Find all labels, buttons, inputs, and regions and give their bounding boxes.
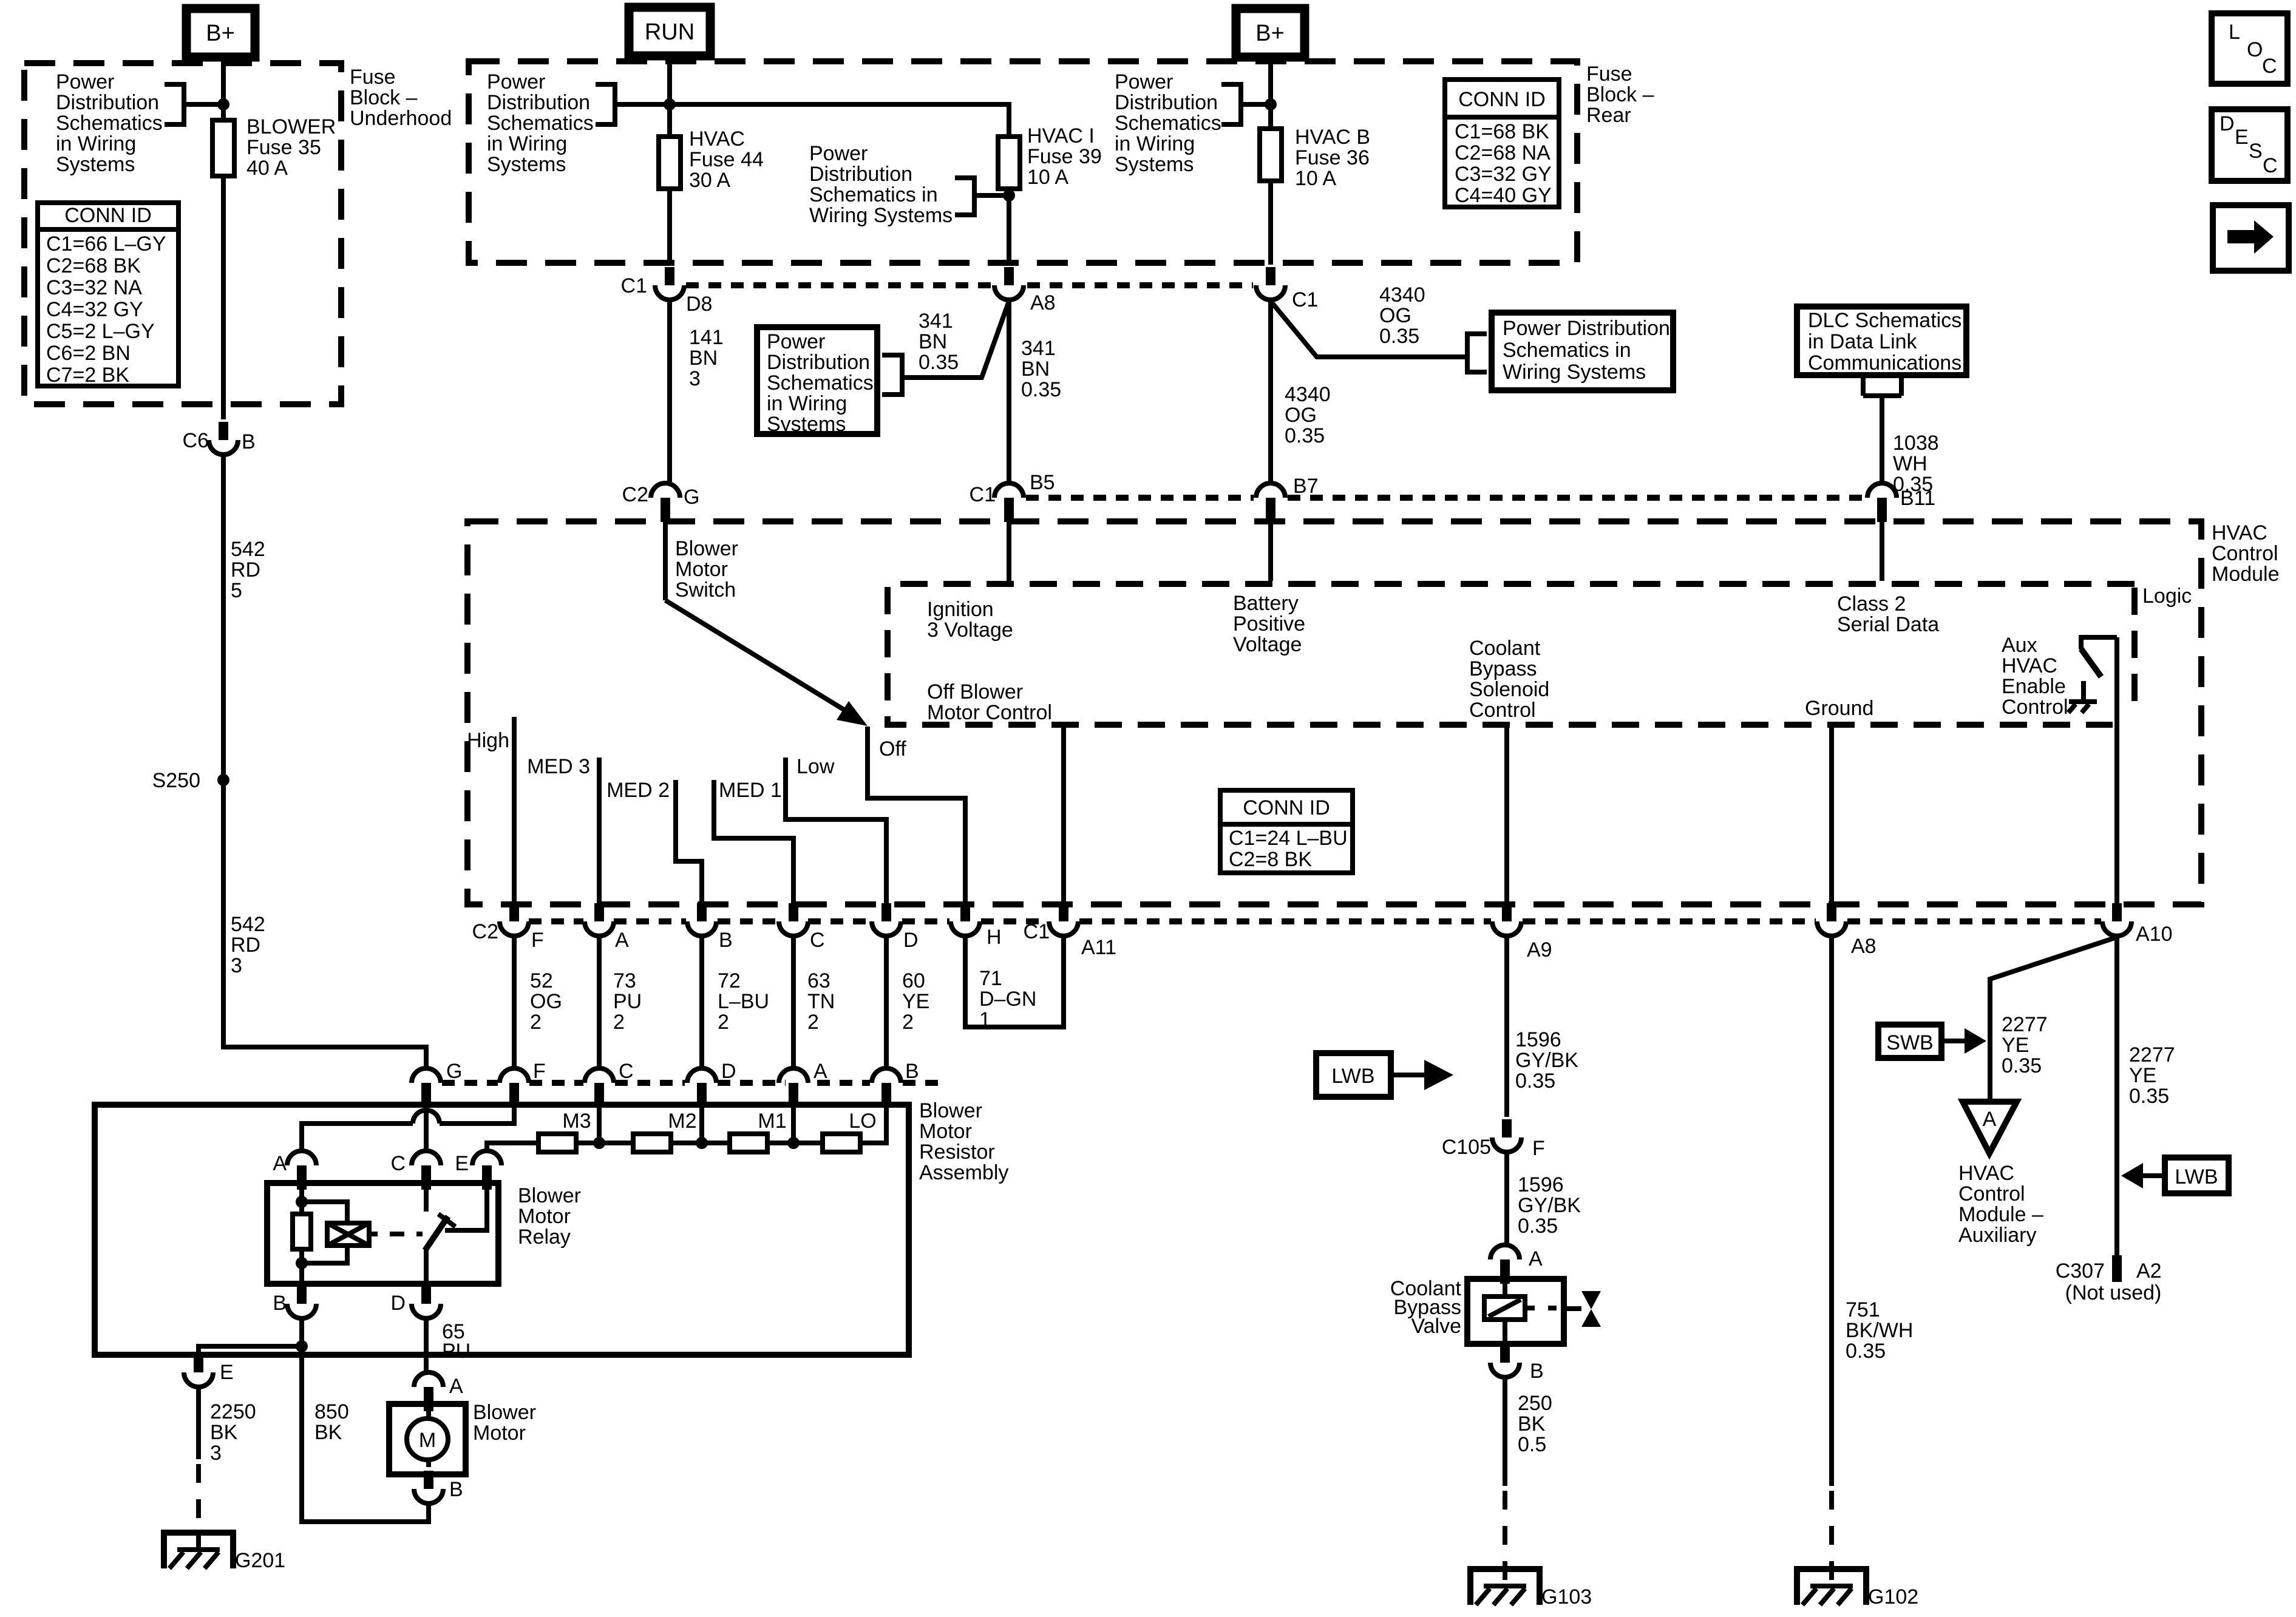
blower motor pin B <box>414 1471 463 1503</box>
svg-text:2: 2 <box>613 1011 625 1034</box>
note Power Distribution Schematics in Wiring Systems (rear feed) <box>1115 70 1271 176</box>
svg-text:341: 341 <box>1021 337 1056 360</box>
relay pin E <box>455 1151 501 1190</box>
switch position MED 2 <box>606 779 702 906</box>
wire aux hvac enable to A10 <box>2114 637 2119 906</box>
svg-text:2: 2 <box>530 1011 542 1034</box>
svg-text:Block –: Block – <box>350 86 418 109</box>
relay coil branch: wire A down <box>299 1183 304 1214</box>
switch position MED 1 <box>714 779 793 906</box>
svg-text:3 Voltage: 3 Voltage <box>927 619 1013 642</box>
wire 1038 WH 0.35 <box>1880 396 1884 483</box>
wire 63 TN 2 <box>793 936 835 1068</box>
note Power Distribution Schematics in Wiring Systems (fuse 39) <box>809 142 1009 227</box>
wire pin F to relay pin A (high speed feed) <box>440 1107 514 1124</box>
svg-text:C3=32 NA: C3=32 NA <box>46 276 142 299</box>
svg-text:Control: Control <box>2002 696 2068 719</box>
svg-text:Class 2: Class 2 <box>1837 592 1906 615</box>
connector pin A (resistor assembly) <box>779 1060 827 1107</box>
svg-text:Distribution: Distribution <box>56 91 159 114</box>
svg-text:HVAC: HVAC <box>2002 654 2057 677</box>
svg-text:S: S <box>2249 140 2263 163</box>
svg-text:0.35: 0.35 <box>1518 1215 1558 1238</box>
svg-text:1596: 1596 <box>1518 1173 1564 1196</box>
svg-text:2277: 2277 <box>2129 1043 2175 1066</box>
wire M1 to LO <box>767 1141 823 1145</box>
wire 542 RD 3 to blower motor resistor assembly pin G <box>223 780 426 1070</box>
svg-text:C4=40 GY: C4=40 GY <box>1455 184 1552 207</box>
svg-text:D–GN: D–GN <box>979 988 1036 1011</box>
svg-text:0.35: 0.35 <box>1021 378 1061 401</box>
svg-text:C7=2 BK: C7=2 BK <box>46 364 129 387</box>
svg-text:L–BU: L–BU <box>718 990 769 1013</box>
ignition feed terminal RUN <box>629 7 710 56</box>
LWB tag (left) <box>1316 1053 1453 1097</box>
resistor chain feed from relay pin E <box>487 1143 537 1151</box>
relay contact arm <box>425 1216 448 1250</box>
svg-text:2277: 2277 <box>2002 1013 2048 1036</box>
svg-text:Distribution: Distribution <box>487 91 590 114</box>
fuse BLOWER Fuse 35 40 A <box>212 115 336 180</box>
svg-text:G: G <box>684 486 699 509</box>
svg-text:M: M <box>419 1429 436 1452</box>
svg-text:B: B <box>719 929 733 952</box>
svg-text:TN: TN <box>807 990 835 1013</box>
svg-text:O: O <box>2247 38 2263 61</box>
svg-text:B: B <box>273 1292 287 1315</box>
fuse HVAC Fuse 44 30 A <box>659 127 764 192</box>
svg-text:G: G <box>446 1060 462 1083</box>
svg-text:B+: B+ <box>206 21 235 46</box>
svg-text:OG: OG <box>1379 304 1411 327</box>
svg-text:M1: M1 <box>758 1110 786 1133</box>
connector C1 pin A11 <box>1024 903 1116 959</box>
svg-text:MED 3: MED 3 <box>527 755 590 778</box>
wire fuse 44 to connector C1/D8 <box>667 189 672 265</box>
svg-text:0.35: 0.35 <box>1846 1340 1886 1363</box>
wire 71 D-GN 1 loop H to A11 <box>965 936 1064 1031</box>
wire pin D to resistor chain <box>699 1107 704 1141</box>
wire 2277 YE 0.35 branch to auxiliary module <box>1990 937 2117 1102</box>
wire 250 BK 0.5 <box>1505 1377 1552 1486</box>
svg-text:2: 2 <box>902 1011 914 1034</box>
svg-text:Fuse 35: Fuse 35 <box>246 136 321 159</box>
wire class 2 serial data into logic <box>1880 522 1884 581</box>
svg-text:Fuse 44: Fuse 44 <box>689 148 764 171</box>
battery feed terminal B+ (underhood) <box>186 8 255 57</box>
svg-text:HVAC I: HVAC I <box>1027 124 1095 147</box>
svg-text:(Not used): (Not used) <box>2065 1281 2162 1304</box>
svg-text:E: E <box>2235 126 2249 149</box>
wire 341 BN 0.35 branch to power distribution <box>902 301 1009 378</box>
svg-text:B: B <box>449 1478 463 1501</box>
ground G103 <box>1470 1569 1592 1609</box>
svg-text:Serial Data: Serial Data <box>1837 613 1939 636</box>
svg-text:1: 1 <box>979 1008 991 1031</box>
svg-text:Blower: Blower <box>473 1401 536 1424</box>
svg-text:751: 751 <box>1846 1298 1880 1321</box>
svg-text:Systems: Systems <box>56 153 135 176</box>
wire M3 to M2 <box>576 1141 633 1145</box>
switch position High <box>467 717 514 906</box>
wire run feed to fuse 39 <box>670 104 1009 137</box>
svg-text:Distribution: Distribution <box>1115 91 1218 114</box>
wire 1596 GY/BK 0.35 (lower) <box>1507 1152 1581 1245</box>
svg-text:A11: A11 <box>1081 936 1116 959</box>
relay winding (box with X) <box>302 1202 378 1263</box>
power distribution schematics box (4340 OG) <box>1461 313 1673 390</box>
wire fuse 39 to connector A8 <box>1007 189 1011 265</box>
svg-text:Distribution: Distribution <box>767 351 870 374</box>
svg-text:YE: YE <box>2002 1034 2029 1057</box>
note Power Distribution Schematics in Wiring Systems (underhood) <box>56 70 223 176</box>
svg-text:F: F <box>533 1060 546 1083</box>
svg-text:C1=66 L–GY: C1=66 L–GY <box>46 232 166 256</box>
relay: arm to pin D <box>424 1249 429 1284</box>
svg-text:C1: C1 <box>621 274 647 297</box>
node: rear feed tap <box>1265 98 1277 110</box>
wire 850 BK <box>302 1346 429 1522</box>
svg-text:Control: Control <box>1958 1182 2025 1205</box>
svg-text:A9: A9 <box>1527 938 1552 961</box>
ground G102 <box>1797 1569 1918 1609</box>
connector pin D (resistor assembly) <box>687 1060 736 1107</box>
svg-text:Auxiliary: Auxiliary <box>1958 1224 2036 1247</box>
svg-text:Ground: Ground <box>1805 697 1873 720</box>
svg-text:B11: B11 <box>1900 487 1935 510</box>
svg-text:0.35: 0.35 <box>919 351 959 374</box>
relay pin A <box>273 1151 316 1190</box>
wire 4340 OG 0.35 branch to power distribution <box>1271 301 1461 357</box>
svg-text:C2=8 BK: C2=8 BK <box>1229 848 1312 871</box>
svg-text:1596: 1596 <box>1515 1028 1561 1051</box>
svg-text:SWB: SWB <box>1886 1031 1933 1054</box>
blower motor pin A <box>414 1372 463 1411</box>
svg-text:Off Blower: Off Blower <box>927 680 1023 703</box>
svg-text:CONN ID: CONN ID <box>64 204 152 227</box>
svg-text:D: D <box>721 1060 736 1083</box>
CONN ID table (underhood) <box>38 203 178 387</box>
connector pin A (73 PU) <box>585 903 629 952</box>
svg-text:Logic: Logic <box>2142 585 2192 608</box>
svg-text:0.5: 0.5 <box>1518 1433 1546 1456</box>
svg-text:MED 2: MED 2 <box>606 779 670 802</box>
connector pin G (resistor assembly) <box>412 1060 462 1107</box>
svg-text:B: B <box>242 430 256 453</box>
svg-text:LO: LO <box>849 1110 876 1133</box>
svg-text:Aux: Aux <box>2002 634 2037 657</box>
wire fuse 35 down to C6 <box>221 176 226 419</box>
blower motor switch: wire from C2/G <box>622 483 700 522</box>
svg-text:Solenoid: Solenoid <box>1469 678 1549 701</box>
svg-text:Valve: Valve <box>1411 1315 1461 1338</box>
connector pin B7 <box>1256 475 1319 522</box>
wire 751 BK/WH 0.35 <box>1832 936 1913 1486</box>
svg-text:60: 60 <box>902 969 925 992</box>
connector pin A10 <box>2102 903 2173 946</box>
connector pin B11 <box>1867 483 1935 522</box>
svg-text:4340: 4340 <box>1285 383 1331 406</box>
svg-text:F: F <box>531 929 544 952</box>
coolant bypass valve pin A <box>1490 1245 1543 1284</box>
svg-text:C6=2 BN: C6=2 BN <box>46 342 131 365</box>
svg-text:PU: PU <box>442 1340 470 1363</box>
svg-text:Schematics in: Schematics in <box>1503 339 1631 362</box>
switch position Low <box>786 755 886 906</box>
svg-text:Coolant: Coolant <box>1469 637 1541 660</box>
wire B+ rear to fuse 36 <box>1268 57 1273 129</box>
svg-text:LWB: LWB <box>2175 1165 2218 1188</box>
svg-text:10 A: 10 A <box>1295 167 1336 190</box>
svg-text:40 A: 40 A <box>246 157 288 180</box>
reference box LOC <box>2212 13 2288 84</box>
svg-text:Rear: Rear <box>1586 104 1631 127</box>
CONN ID table (rear) <box>1445 80 1559 207</box>
connector pin F (resistor assembly) <box>500 1060 546 1107</box>
svg-text:Voltage: Voltage <box>1233 633 1302 656</box>
svg-text:in Data Link: in Data Link <box>1808 330 1918 353</box>
svg-text:in Wiring: in Wiring <box>56 132 136 155</box>
svg-text:C1=68 BK: C1=68 BK <box>1455 120 1549 143</box>
blower motor resistor assembly box <box>95 1105 909 1355</box>
connector C1 (fuse 36 output) <box>1256 267 1318 311</box>
svg-text:10 A: 10 A <box>1027 166 1068 189</box>
svg-text:Wiring Systems: Wiring Systems <box>1503 361 1646 384</box>
svg-text:A: A <box>1983 1108 1997 1131</box>
svg-text:2: 2 <box>718 1011 729 1034</box>
HVAC module output connector row (dotted) <box>529 918 583 924</box>
svg-text:GY/BK: GY/BK <box>1515 1049 1578 1072</box>
svg-text:3: 3 <box>231 954 242 977</box>
wire pin B to resistor chain <box>860 1107 886 1143</box>
svg-text:Power Distribution: Power Distribution <box>1503 317 1670 340</box>
svg-text:MED 1: MED 1 <box>719 779 782 802</box>
svg-text:DLC Schematics: DLC Schematics <box>1808 309 1961 332</box>
relay pin C <box>390 1151 441 1190</box>
wire 60 YE 2 <box>886 936 929 1068</box>
svg-text:Assembly: Assembly <box>919 1161 1008 1184</box>
svg-text:in Wiring: in Wiring <box>1115 132 1195 155</box>
svg-text:30 A: 30 A <box>689 169 730 192</box>
off-page reference A (triangle) <box>1963 1102 2017 1153</box>
svg-text:RUN: RUN <box>645 19 695 45</box>
resistor M3 <box>538 1110 591 1152</box>
svg-text:E: E <box>220 1361 234 1384</box>
svg-text:BN: BN <box>689 347 718 370</box>
dotted connector line (HVAC control module inputs) <box>1026 495 1254 501</box>
svg-text:BK: BK <box>1518 1412 1546 1436</box>
svg-text:0.35: 0.35 <box>2002 1054 2042 1077</box>
svg-text:Resistor: Resistor <box>919 1141 995 1164</box>
node: pin A tap on resistor chain <box>787 1137 800 1149</box>
wire 52 OG 2 <box>514 936 562 1068</box>
resistor LO <box>823 1110 877 1152</box>
SWB tag <box>1878 1025 1986 1058</box>
relay contact wire from E <box>445 1183 487 1230</box>
LWB tag (right) <box>2121 1158 2229 1193</box>
svg-text:Motor Control: Motor Control <box>927 701 1052 724</box>
svg-text:2: 2 <box>807 1011 819 1034</box>
svg-text:C: C <box>390 1152 406 1175</box>
wire M2 to M1 <box>671 1141 730 1145</box>
svg-text:A: A <box>615 929 629 952</box>
svg-text:Blower: Blower <box>675 537 738 560</box>
svg-text:G103: G103 <box>1541 1585 1592 1609</box>
svg-text:542: 542 <box>231 913 265 936</box>
svg-text:D: D <box>2220 112 2235 135</box>
svg-text:BK/WH: BK/WH <box>1846 1319 1913 1342</box>
svg-text:5: 5 <box>231 579 242 602</box>
wire switch Off position to pin H <box>868 727 965 906</box>
wire pin G down to relay pin C <box>424 1107 429 1151</box>
node: power distribution tap <box>217 98 229 110</box>
node: coil bottom junction <box>296 1257 308 1269</box>
svg-text:141: 141 <box>689 326 724 349</box>
svg-text:C2=68 BK: C2=68 BK <box>46 254 141 277</box>
svg-text:C: C <box>2263 154 2278 177</box>
connector pin H (71 D-GN) <box>951 903 1002 949</box>
svg-text:C1: C1 <box>1024 920 1050 943</box>
svg-text:High: High <box>467 729 509 752</box>
svg-text:C105: C105 <box>1442 1136 1491 1159</box>
svg-text:Positive: Positive <box>1233 612 1305 636</box>
svg-text:H: H <box>987 926 1002 949</box>
svg-text:A8: A8 <box>1851 935 1877 958</box>
CONN ID table (HVAC module) <box>1220 790 1353 873</box>
wire 73 PU 2 <box>599 936 642 1068</box>
svg-text:3: 3 <box>689 367 701 390</box>
reference box DESC <box>2212 109 2288 181</box>
svg-text:A2: A2 <box>2136 1259 2162 1283</box>
svg-text:C2: C2 <box>622 483 648 506</box>
svg-text:Module –: Module – <box>1958 1203 2043 1226</box>
coolant bypass valve pin B <box>1490 1344 1544 1383</box>
svg-text:Systems: Systems <box>487 153 566 176</box>
svg-text:M3: M3 <box>562 1110 591 1133</box>
relay actuation linkage (dashed) <box>390 1232 423 1236</box>
svg-text:1038: 1038 <box>1893 432 1939 455</box>
svg-text:C2=68 NA: C2=68 NA <box>1455 141 1550 164</box>
svg-text:LWB: LWB <box>1331 1065 1374 1088</box>
fuse block - underhood (dashed box) <box>24 63 341 404</box>
svg-text:Systems: Systems <box>1115 153 1194 176</box>
svg-text:OG: OG <box>530 990 562 1013</box>
fuse HVAC B Fuse 36 10 A <box>1260 126 1370 190</box>
svg-text:71: 71 <box>979 967 1002 990</box>
power distribution schematics box (341 BN) <box>757 327 877 436</box>
svg-text:Bypass: Bypass <box>1469 657 1537 680</box>
svg-text:Off: Off <box>879 737 906 761</box>
svg-text:BN: BN <box>1021 358 1050 381</box>
wire 2250 BK 3 <box>199 1387 256 1465</box>
svg-text:2250: 2250 <box>210 1400 256 1423</box>
svg-text:HVAC: HVAC <box>1958 1162 2014 1185</box>
fuse block dashed box (ignition feeds) <box>469 61 1577 263</box>
svg-text:Enable: Enable <box>2002 675 2066 698</box>
node: pin C tap on resistor chain <box>593 1137 605 1149</box>
connector pin A9 <box>1492 903 1552 961</box>
connector pin C (resistor assembly) <box>585 1060 634 1107</box>
connector pin A8 (ground) <box>1817 903 1877 958</box>
svg-text:0.35: 0.35 <box>2129 1085 2169 1108</box>
svg-text:Fuse: Fuse <box>350 66 396 89</box>
svg-text:B: B <box>905 1060 919 1083</box>
svg-text:G102: G102 <box>1868 1585 1918 1609</box>
svg-text:A8: A8 <box>1030 291 1056 314</box>
svg-text:C: C <box>810 929 825 952</box>
svg-text:Switch: Switch <box>675 578 736 602</box>
connector pin D (60 YE) <box>872 903 919 952</box>
connector pin E (resistor assembly bottom) <box>184 1354 234 1387</box>
svg-text:A: A <box>273 1152 287 1175</box>
svg-text:L: L <box>2229 21 2240 44</box>
svg-text:Systems: Systems <box>767 413 846 436</box>
svg-text:C5=2 L–GY: C5=2 L–GY <box>46 320 155 343</box>
svg-text:GY/BK: GY/BK <box>1518 1194 1581 1217</box>
svg-text:C: C <box>2262 55 2277 78</box>
svg-text:B7: B7 <box>1293 475 1319 498</box>
svg-text:Motor: Motor <box>919 1120 972 1143</box>
svg-text:Motor: Motor <box>518 1205 571 1228</box>
wire coolant bypass solenoid control to A9 <box>1504 725 1509 906</box>
resistor M2 <box>633 1110 697 1152</box>
svg-text:in Wiring: in Wiring <box>487 132 567 155</box>
valve symbol (bowtie) <box>1564 1291 1601 1327</box>
wire 2277 YE 0.35 to C307 <box>2117 936 2175 1255</box>
wire 65 PU <box>426 1318 470 1372</box>
battery feed terminal B+ (rear) <box>1236 8 1305 57</box>
svg-text:850: 850 <box>314 1400 349 1423</box>
svg-text:4340: 4340 <box>1379 283 1425 307</box>
relay contact: fixed from C <box>424 1183 429 1212</box>
node: run feed tap <box>664 98 676 110</box>
svg-text:0.35: 0.35 <box>1515 1070 1555 1093</box>
svg-text:Motor: Motor <box>473 1422 526 1445</box>
node: relay B ground splice <box>296 1340 308 1352</box>
svg-text:RD: RD <box>231 934 260 957</box>
switch position MED 3 <box>527 755 599 906</box>
svg-text:A10: A10 <box>2136 923 2173 946</box>
svg-text:S250: S250 <box>152 769 200 792</box>
wire 542 RD 5 <box>221 455 226 780</box>
reference box forward arrow <box>2213 205 2289 271</box>
svg-text:C307: C307 <box>2056 1259 2105 1283</box>
fuse HVAC I Fuse 39 10 A <box>998 124 1102 189</box>
connector pin C (63 TN) <box>779 903 825 952</box>
svg-text:Schematics: Schematics <box>1115 112 1221 135</box>
connector pin A8 (fuse 39 output) <box>994 267 1056 314</box>
svg-text:542: 542 <box>231 538 265 561</box>
wire to resistor box pin E <box>199 1346 302 1352</box>
svg-text:Wiring Systems: Wiring Systems <box>809 204 953 227</box>
wire off blower motor control to A11 <box>1061 725 1066 906</box>
bracket below DLC box <box>1863 375 1901 396</box>
svg-text:CONN ID: CONN ID <box>1458 88 1546 111</box>
svg-text:0.35: 0.35 <box>1379 325 1419 348</box>
svg-text:63: 63 <box>807 969 830 992</box>
blower motor M1 (box) <box>389 1404 466 1474</box>
svg-text:C1: C1 <box>970 483 996 506</box>
svg-text:0.35: 0.35 <box>1285 424 1325 447</box>
svg-text:YE: YE <box>902 990 929 1013</box>
svg-text:WH: WH <box>1893 452 1927 475</box>
wire 72 L-BU 2 <box>702 936 769 1068</box>
wire relay B to ground branch <box>299 1318 304 1346</box>
svg-text:D: D <box>390 1292 406 1315</box>
connector C6 pin B <box>183 422 256 455</box>
svg-text:52: 52 <box>530 969 553 992</box>
wire RUN to fuse 44 <box>667 56 672 137</box>
